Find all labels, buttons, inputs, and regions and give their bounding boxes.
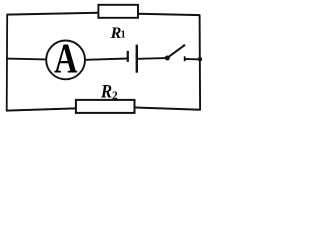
wire: middle branch left segment — [7, 58, 47, 61]
wire: outer loop right edge — [199, 15, 202, 111]
svg-text:1: 1 — [121, 29, 126, 40]
svg-text:A: A — [54, 37, 77, 83]
wire: top edge left segment — [6, 13, 98, 15]
wire: battery-to-switch segment — [138, 57, 166, 60]
switch S1 blade (open) — [168, 45, 184, 57]
battery BT1 short plate (negative) — [127, 51, 129, 62]
switch S1 pivot dot — [165, 56, 170, 61]
svg-text:R: R — [100, 81, 112, 102]
battery BT1 long plate (positive) — [136, 45, 138, 73]
wire: outer loop left edge — [6, 14, 9, 111]
wire: top edge right segment — [139, 14, 200, 15]
node: junction blob at right edge / middle wire — [198, 57, 202, 61]
wire: bottom edge right segment — [135, 108, 200, 110]
switch S1 blade tip blob — [183, 44, 185, 46]
resistor R2 box — [76, 100, 135, 113]
svg-text:2: 2 — [112, 90, 118, 102]
ammeter A1 circle — [46, 41, 85, 80]
switch S1 fixed contact tick — [184, 56, 186, 61]
wire: bottom edge left segment — [6, 108, 76, 110]
wire: switch-to-right-edge segment — [184, 58, 200, 61]
resistor R1 box — [98, 5, 138, 18]
wire: middle branch circle-to-battery segment — [86, 59, 128, 60]
